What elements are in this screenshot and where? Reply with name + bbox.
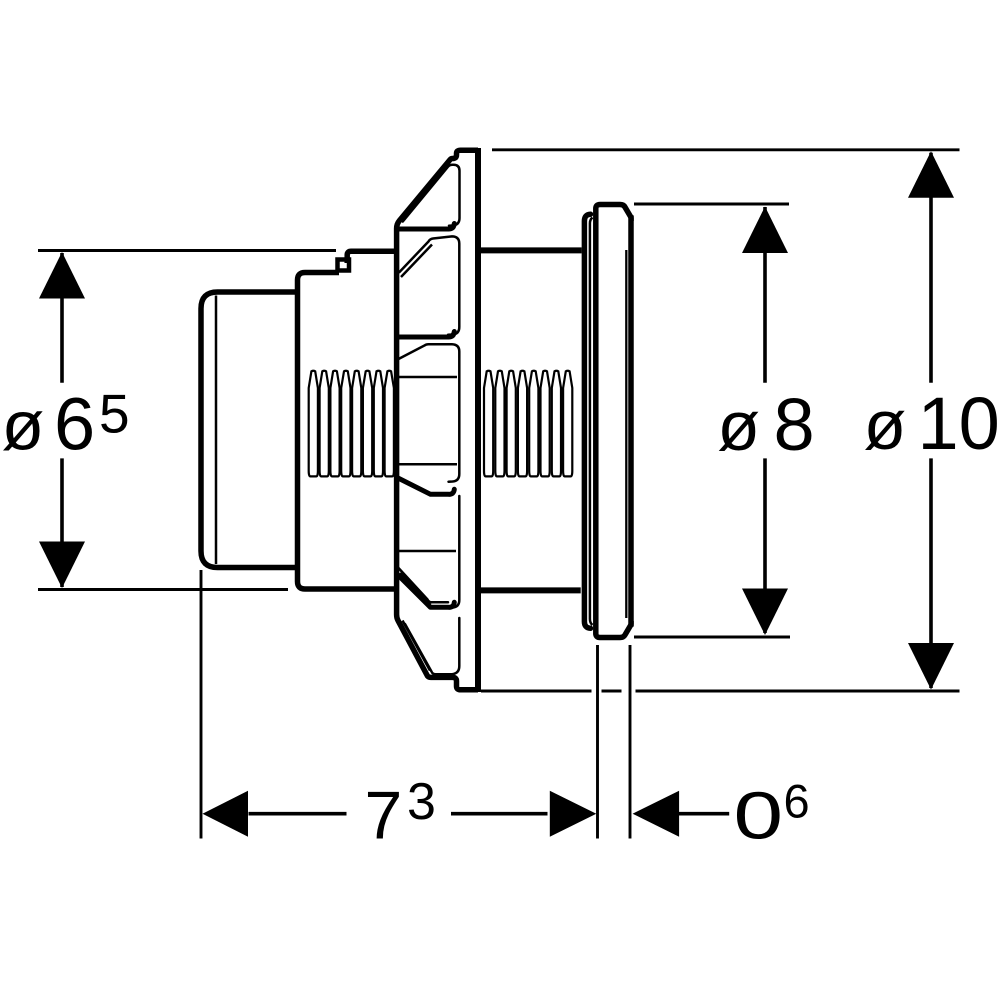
flange shelf 2 (398, 332, 454, 338)
svg-text:0: 0 (734, 778, 784, 853)
pipe bottom edge (481, 587, 581, 593)
rosette cap outline (596, 205, 634, 638)
rosette rim face line (590, 218, 593, 626)
flange window lines (399, 377, 458, 464)
collar top edge (347, 251, 394, 263)
dim ø8 arrow down (742, 589, 788, 636)
svg-text:ø: ø (2, 387, 45, 465)
flange shelf 3 (Z) (397, 478, 454, 495)
flange rib2 second diagonal (401, 245, 432, 278)
dim ø6⁵ bottom extension line (38, 588, 288, 591)
flange rib4 second diagonal (400, 573, 431, 605)
dim 0⁶ line (678, 812, 729, 816)
label 0⁶ (734, 775, 810, 853)
rosette rim edge (584, 214, 590, 628)
button cap outline (201, 292, 298, 568)
dim ø10 top extension line (492, 148, 960, 151)
flange plate right edge (475, 148, 481, 692)
flange outer profile (397, 150, 478, 690)
dim ø10 arrow up (908, 151, 954, 198)
svg-text:5: 5 (99, 383, 130, 445)
svg-text:8: 8 (774, 383, 815, 466)
flange bottom inner diagonal (403, 621, 431, 671)
dim 7³ arrow right (550, 791, 597, 837)
svg-text:ø: ø (717, 387, 760, 465)
flange rib2 diagonal + top + face line B (400, 236, 460, 334)
dim 0⁶ arrow left (633, 791, 680, 837)
svg-text:7: 7 (365, 778, 403, 854)
flange bottom inner diagonal 2 + bottom edge (405, 624, 450, 674)
body outline (298, 273, 397, 590)
label 7³ (365, 773, 436, 854)
flange rib3 diagonal + top + face line C (399, 344, 460, 481)
threads right band (484, 371, 572, 477)
svg-text:3: 3 (407, 773, 436, 831)
pipe top edge (481, 247, 582, 253)
label ø 6⁵ (2, 383, 130, 466)
flange shelf 1 (398, 224, 454, 230)
dim ø10 arrow down (908, 643, 954, 690)
flange face line E (450, 618, 459, 674)
dim ø8 bottom extension line (634, 636, 790, 639)
dim ø6⁵ arrow down (39, 542, 85, 589)
flange rib4 diagonal + bottom edge (399, 568, 449, 602)
label ø 8 (717, 383, 814, 466)
svg-text:6: 6 (784, 775, 810, 828)
svg-text:10: 10 (918, 382, 1000, 465)
dim ø6⁵ line (60, 253, 64, 587)
body clip tab (338, 260, 350, 271)
dim ø10 line (929, 153, 933, 688)
dim 7³ left extension line (200, 570, 203, 839)
svg-text:ø: ø (864, 386, 907, 464)
flange mid rib line (399, 550, 457, 553)
rosette right edge (628, 218, 634, 625)
button face inner line (215, 296, 218, 565)
threads left band (309, 371, 394, 477)
dim 7³ arrow left (203, 791, 249, 837)
dim 7³ line (249, 812, 548, 816)
label ø 10 (864, 382, 1000, 465)
flange inner top diagonal + rib1 + face line A (403, 165, 460, 226)
dim ø8 line (763, 207, 767, 633)
dim ø8 top extension line (634, 203, 789, 206)
dim 0⁶ right extension line (629, 645, 632, 839)
dim 7³/0⁶ middle extension line (596, 645, 599, 839)
flange face line D (448, 496, 459, 608)
dim ø6⁵ top extension line (38, 249, 336, 252)
flange shelf 4 (Z) (397, 574, 454, 607)
dim ø6⁵ arrow up (39, 252, 85, 299)
dim ø8 arrow up (742, 207, 788, 254)
rosette inner line (625, 250, 627, 618)
svg-text:6: 6 (54, 383, 95, 466)
dim ø10 bottom extension line (481, 690, 960, 693)
